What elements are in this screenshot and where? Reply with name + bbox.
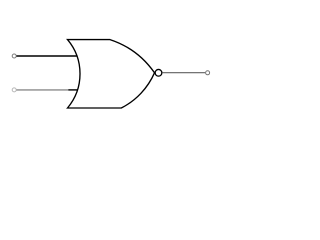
input terminal pin A bbox=[12, 54, 16, 58]
NOR gate U1 body (OR shape) bbox=[68, 40, 155, 108]
wire input A bbox=[17, 55, 77, 57]
NOR gate U1 inversion bubble bbox=[155, 69, 162, 76]
wire output bbox=[162, 72, 205, 74]
output terminal pin bbox=[206, 71, 210, 75]
wire input B (gray segment) bbox=[17, 89, 69, 91]
input terminal pin B bbox=[12, 88, 16, 92]
wire input B stub (black segment into gate) bbox=[68, 89, 77, 91]
